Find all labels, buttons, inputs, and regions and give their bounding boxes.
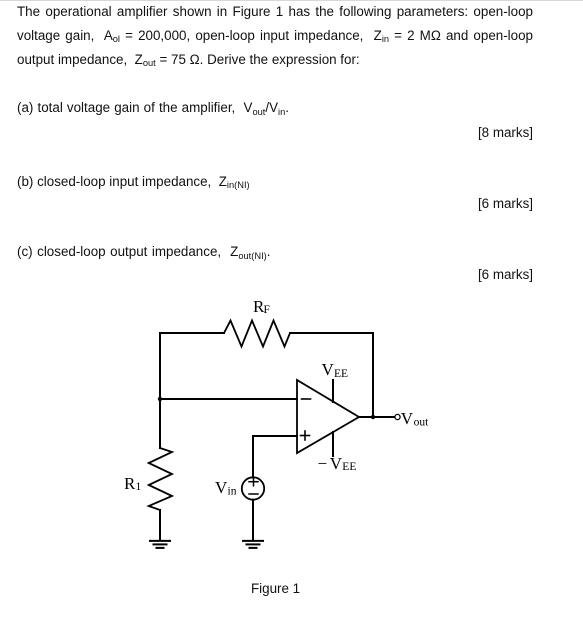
terminal Vout (open circle)	[395, 414, 400, 419]
wire top-right horizontal	[290, 332, 373, 334]
svg-text:1: 1	[136, 481, 142, 493]
svg-text:R: R	[124, 474, 136, 493]
svg-text:V: V	[322, 360, 335, 379]
label Vin	[215, 478, 237, 498]
wire right vertical (feedback)	[372, 333, 374, 417]
label R1	[124, 474, 142, 493]
svg-text:EE: EE	[342, 461, 356, 473]
label Vout	[401, 409, 429, 429]
svg-text:EE: EE	[334, 368, 348, 380]
resistor RF	[224, 321, 290, 347]
node junction at inverting input tap	[158, 397, 162, 401]
item (a)	[17, 101, 289, 114]
paragraph	[17, 0, 533, 72]
resistor R1	[149, 448, 172, 510]
VEE supply stub	[332, 380, 334, 402]
label -VEE	[318, 454, 357, 473]
scan artifact line at top edge	[0, 0, 583, 1]
label RF	[253, 297, 270, 316]
svg-text:V: V	[401, 409, 414, 428]
wire non-inverting input	[253, 436, 297, 478]
wire inverting input	[160, 398, 297, 400]
ground (source)	[243, 541, 263, 548]
label VEE	[322, 360, 349, 380]
node junction at output	[371, 415, 375, 419]
wire top-left horizontal	[160, 332, 224, 334]
wire R1 to ground	[159, 510, 161, 540]
figure caption	[251, 582, 300, 595]
ground (R1)	[150, 541, 170, 548]
svg-text:−: −	[318, 454, 328, 473]
op-amp U1	[297, 380, 359, 453]
marks (c)	[17, 268, 533, 281]
svg-text:V: V	[330, 454, 343, 473]
svg-text:in: in	[228, 486, 237, 498]
wire left vertical	[159, 333, 161, 448]
wire source to ground	[252, 500, 254, 540]
source Vin	[242, 477, 264, 499]
marks (a)	[17, 126, 533, 139]
svg-text:out: out	[414, 417, 430, 429]
marks (b)	[17, 197, 533, 210]
item (b)	[17, 175, 250, 188]
svg-text:F: F	[264, 304, 270, 316]
item (c)	[17, 245, 271, 258]
-VEE supply stub	[332, 432, 334, 456]
wire output	[359, 416, 395, 418]
svg-text:V: V	[215, 478, 228, 497]
